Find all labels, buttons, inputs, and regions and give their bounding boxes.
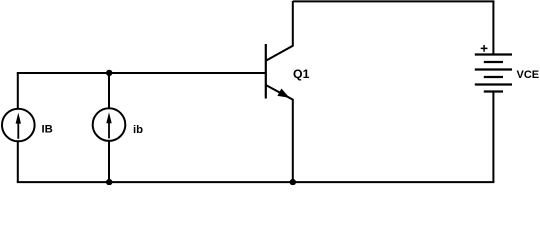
emitter arrowhead xyxy=(277,89,289,98)
node: bottom junction of emitter xyxy=(290,179,296,185)
wire top: collector rail from Q1 collector to battery positive xyxy=(293,0,495,2)
wire bottom rail xyxy=(17,181,495,183)
wire base rail from left branch to Q1 base xyxy=(17,72,266,74)
transistor Q1 (NPN BJT) xyxy=(266,1,310,182)
collector lead: diagonal up from bar then vertical to top rail xyxy=(266,1,293,61)
current source IB xyxy=(2,109,53,142)
long plate 2 xyxy=(475,68,512,70)
short plate 2 xyxy=(484,76,503,78)
svg-text:IB: IB xyxy=(42,124,53,136)
wire right vertical: top rail down to battery + plate xyxy=(492,1,494,55)
svg-text:VCE: VCE xyxy=(517,69,540,81)
wire right vertical: battery - plate down to bottom rail xyxy=(492,92,494,183)
wire left vertical through IB source xyxy=(17,73,19,182)
svg-text:Q1: Q1 xyxy=(293,67,310,81)
short plate 3 xyxy=(484,90,503,92)
node: base junction of ib branch xyxy=(106,70,112,76)
node: bottom junction of ib branch xyxy=(106,179,112,185)
long plate 3 xyxy=(475,83,512,85)
long plate 1 xyxy=(475,53,512,55)
svg-text:ib: ib xyxy=(133,124,143,136)
battery VCE xyxy=(475,45,539,92)
wire ib branch vertical xyxy=(108,73,110,182)
emitter lead: diagonal down from bar then vertical to bottom rail xyxy=(266,85,293,182)
short plate 1 xyxy=(484,61,503,63)
plus sign xyxy=(481,45,488,52)
current source ib xyxy=(93,108,143,141)
base bar xyxy=(265,44,267,99)
